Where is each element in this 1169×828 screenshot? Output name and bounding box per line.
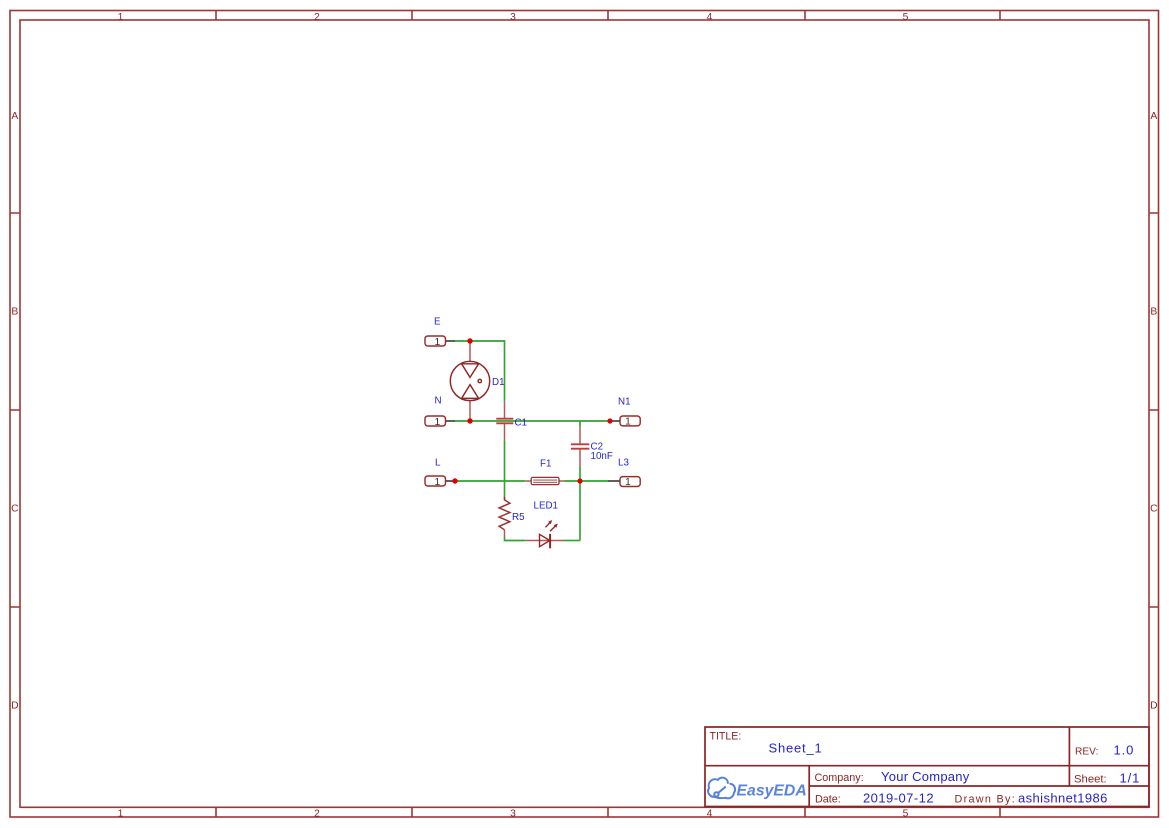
svg-text:A: A bbox=[1150, 111, 1157, 122]
svg-text:3: 3 bbox=[510, 12, 516, 23]
svg-text:EasyEDA: EasyEDA bbox=[737, 782, 807, 799]
svg-text:R5: R5 bbox=[512, 512, 525, 523]
svg-text:L: L bbox=[435, 458, 441, 469]
svg-text:L3: L3 bbox=[618, 457, 629, 468]
svg-text:4: 4 bbox=[707, 808, 713, 819]
svg-text:1: 1 bbox=[434, 477, 440, 488]
svg-text:Sheet_1: Sheet_1 bbox=[769, 741, 823, 756]
svg-text:Drawn By:: Drawn By: bbox=[955, 794, 1017, 806]
svg-text:F1: F1 bbox=[540, 459, 551, 470]
svg-text:LED1: LED1 bbox=[534, 501, 559, 512]
svg-text:2: 2 bbox=[314, 12, 320, 23]
svg-text:1: 1 bbox=[434, 417, 440, 428]
svg-text:1: 1 bbox=[625, 477, 631, 488]
svg-text:N1: N1 bbox=[618, 397, 631, 408]
svg-text:5: 5 bbox=[903, 808, 909, 819]
svg-text:1: 1 bbox=[118, 808, 124, 819]
svg-text:3: 3 bbox=[510, 808, 516, 819]
svg-text:C: C bbox=[1150, 504, 1158, 515]
svg-text:5: 5 bbox=[903, 12, 909, 23]
svg-text:Company:: Company: bbox=[815, 772, 864, 784]
svg-text:B: B bbox=[1150, 307, 1157, 318]
svg-text:TITLE:: TITLE: bbox=[710, 731, 742, 743]
svg-text:1: 1 bbox=[434, 337, 440, 348]
svg-text:10nF: 10nF bbox=[591, 451, 613, 462]
svg-text:2019-07-12: 2019-07-12 bbox=[863, 791, 934, 806]
svg-text:1: 1 bbox=[625, 416, 631, 427]
svg-text:ashishnet1986: ashishnet1986 bbox=[1018, 791, 1108, 806]
svg-text:A: A bbox=[11, 111, 18, 122]
svg-text:D: D bbox=[11, 701, 18, 712]
svg-text:D1: D1 bbox=[492, 377, 505, 388]
svg-text:1/1: 1/1 bbox=[1120, 771, 1141, 786]
svg-text:D: D bbox=[1150, 701, 1157, 712]
svg-text:E: E bbox=[434, 317, 441, 328]
svg-text:1: 1 bbox=[118, 12, 124, 23]
svg-text:4: 4 bbox=[707, 12, 713, 23]
svg-text:2: 2 bbox=[314, 808, 320, 819]
svg-text:C: C bbox=[11, 504, 19, 515]
svg-text:C1: C1 bbox=[515, 418, 528, 429]
svg-text:Date:: Date: bbox=[815, 794, 841, 806]
svg-text:1.0: 1.0 bbox=[1114, 743, 1135, 758]
svg-text:Sheet:: Sheet: bbox=[1074, 774, 1107, 786]
svg-text:Your Company: Your Company bbox=[881, 769, 970, 784]
svg-text:REV:: REV: bbox=[1075, 747, 1098, 758]
svg-text:N: N bbox=[435, 396, 442, 407]
svg-text:B: B bbox=[11, 307, 18, 318]
